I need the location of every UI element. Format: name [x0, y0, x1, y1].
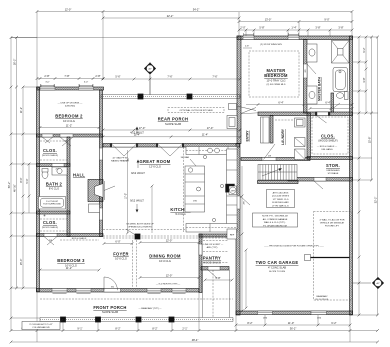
svg-text:16'-2": 16'-2"	[12, 59, 16, 66]
door opening: pantry south door	[208, 267, 220, 271]
dimension line: top second level	[103, 17, 239, 19]
svg-text:PANTRY: PANTRY	[203, 256, 221, 261]
beam dashed: great room south	[103, 235, 236, 237]
fixture: mbath vanity2	[307, 86, 317, 104]
dimension: stoop width	[205, 279, 232, 281]
dimension line: left tub dim	[28, 164, 30, 213]
front porch slab edge	[40, 317, 233, 319]
leader: beam arrow	[126, 229, 137, 236]
svg-text:FRONT PORCH: FRONT PORCH	[93, 305, 126, 310]
svg-text:CLOS.: CLOS.	[43, 220, 57, 225]
svg-text:7'-8": 7'-8"	[64, 74, 69, 78]
dimension line: garage doors	[236, 324, 350, 326]
window: master north W2	[288, 36, 299, 40]
svg-text:CLOS.: CLOS.	[43, 148, 57, 153]
jamb: great room sliders	[110, 144, 112, 148]
svg-text:— 8'-0 HDR HT (TYP) —: — 8'-0 HDR HT (TYP) —	[156, 284, 181, 286]
door opening: mbath door	[304, 64, 308, 78]
porch post NW	[138, 94, 143, 99]
svg-text:6'-4": 6'-4"	[278, 100, 283, 104]
fixture: mbath tub	[333, 68, 348, 92]
door opening: great room slider E	[157, 144, 183, 148]
door opening: laundry door	[262, 158, 276, 161]
svg-text:11'-4": 11'-4"	[202, 133, 208, 137]
closet1 shelf dashed	[40, 140, 67, 142]
svg-text:— LINE OF 5/8 DRWL —: — LINE OF 5/8 DRWL —	[58, 103, 83, 105]
wall: laundry south	[241, 158, 310, 161]
dimension line: bottom overall	[11, 341, 378, 343]
wall: pantry north	[199, 234, 231, 237]
svg-text:— BEAM ABV (TYP) —: — BEAM ABV (TYP) —	[139, 307, 163, 310]
door opening: bath2 door	[52, 164, 64, 167]
extension lines	[36, 12, 38, 87]
svg-text:4' WALL TO ALLOW FOR: 4' WALL TO ALLOW FOR	[320, 219, 345, 222]
wall: garage south	[236, 311, 353, 315]
svg-text:2'-8": 2'-8"	[44, 74, 49, 78]
bedroom3 closet shelf	[60, 239, 99, 241]
svg-text:10'-0 CLG: 10'-0 CLG	[63, 119, 75, 123]
svg-text:OPTIONAL OUTDOOR KITCHEN: OPTIONAL OUTDOOR KITCHEN	[180, 109, 213, 112]
soffit dashed above dining	[103, 229, 199, 231]
sill: master w2	[289, 34, 299, 36]
fixture: laundry sink	[295, 149, 306, 160]
dimension: dining width 2	[140, 277, 199, 279]
fixture: entry bench	[261, 117, 270, 143]
note: porch column	[22, 322, 60, 330]
dimension line: right bath dims	[365, 37, 367, 113]
svg-text:5'-0": 5'-0"	[25, 178, 29, 183]
svg-text:OPENING (8'-0 HDR HT): OPENING (8'-0 HDR HT)	[128, 227, 153, 229]
window: dining south W1	[147, 289, 161, 293]
kitchen faucet diamonds	[203, 155, 206, 158]
door opening: mbath to closet	[316, 112, 329, 116]
wall: pantry west / dining east	[199, 234, 202, 293]
svg-text:7'-6": 7'-6"	[212, 75, 217, 79]
porch post NE	[187, 94, 192, 99]
water heater	[229, 186, 237, 195]
door opening: bedroom2 door	[60, 134, 73, 137]
svg-text:9'-0": 9'-0"	[324, 17, 329, 21]
wall: tub south	[37, 211, 71, 214]
sill: bed3 south w1	[53, 293, 67, 295]
svg-text:9/12 VAULT: 9/12 VAULT	[131, 171, 145, 175]
svg-text:ATTIC ACCESS: ATTIC ACCESS	[273, 191, 289, 194]
svg-text:11'-4": 11'-4"	[134, 133, 140, 137]
svg-text:DBL HANG: DBL HANG	[321, 148, 332, 151]
svg-text:REF: REF	[230, 235, 235, 237]
door opening: hall to great room	[100, 148, 103, 160]
svg-text:REAR PORCH: REAR PORCH	[158, 117, 189, 122]
svg-text:8'-0 CLG: 8'-0 CLG	[49, 187, 59, 191]
wall: bedroom2 east / hall east	[100, 90, 103, 237]
sill: dining south w2	[173, 293, 186, 295]
dimension line: top right 13ft	[239, 21, 352, 23]
kitchen lower counter	[186, 224, 237, 233]
wall: bedroom2 north	[37, 87, 104, 90]
svg-text:(WOOD SHELF): (WOOD SHELF)	[42, 227, 58, 229]
dimension line: above rear porch	[103, 78, 240, 80]
svg-text:R-38 INSUL ABV: R-38 INSUL ABV	[272, 201, 289, 204]
svg-text:42" GAS FP W/: 42" GAS FP W/	[112, 157, 127, 160]
svg-text:BEDROOM 2: BEDROOM 2	[55, 114, 83, 119]
svg-text:WALLS & CLG (TYP) -: WALLS & CLG (TYP) -	[264, 221, 286, 224]
svg-text:9'-2": 9'-2"	[362, 47, 366, 52]
svg-text:11'-2": 11'-2"	[66, 266, 72, 270]
svg-text:BATH 2: BATH 2	[46, 182, 63, 187]
porch post S3	[136, 317, 141, 322]
window: bedroom3 south W1	[52, 289, 67, 293]
svg-text:11'-2": 11'-2"	[66, 123, 72, 127]
kitchen ref	[227, 229, 237, 239]
door opening: front door	[104, 289, 121, 293]
dimension: porch interior	[103, 129, 240, 131]
wall: south exterior	[37, 289, 200, 293]
svg-text:(CEILING): (CEILING)	[65, 105, 75, 107]
door opening: great room slider W	[111, 144, 137, 148]
leader: kitchen note	[190, 159, 196, 166]
door opening: stor door	[314, 178, 326, 182]
wall: bath2 east	[67, 137, 70, 237]
porch post S2	[95, 317, 100, 322]
svg-text:10'-0 CLG: 10'-0 CLG	[159, 259, 171, 263]
garage dashed storage	[314, 212, 353, 301]
wall: bedroom2 south	[37, 134, 103, 137]
svg-text:15'-8": 15'-8"	[367, 137, 371, 144]
closet-r shelf dashed	[312, 117, 348, 154]
laundry shelf dashed	[275, 119, 293, 121]
door leaf: master entry door	[241, 108, 256, 114]
note box: garage wall	[253, 213, 298, 227]
dimension: garage interior v	[245, 250, 247, 308]
svg-text:CLOS.: CLOS.	[321, 134, 335, 139]
door opening: closet1 door	[42, 134, 53, 137]
svg-text:(WOOD SHELF): (WOOD SHELF)	[42, 155, 58, 157]
svg-text:FUTURE LIFT: FUTURE LIFT	[325, 226, 340, 228]
svg-text:STORAGE: STORAGE	[328, 172, 339, 175]
svg-text:WOOD SHLVS: WOOD SHLVS	[203, 261, 221, 265]
svg-text:3'-8": 3'-8"	[362, 77, 366, 82]
fixture: mbath shower	[332, 41, 350, 64]
fixture: bath2 vanity	[52, 167, 67, 175]
sill: master w1	[244, 34, 254, 36]
garage door opening 2	[311, 311, 327, 315]
svg-text:36'-2": 36'-2"	[290, 326, 297, 330]
svg-text:1/2" DRWL CLG: 1/2" DRWL CLG	[273, 199, 289, 201]
post: foyer-dining column	[135, 234, 140, 239]
svg-text:17'-0": 17'-0"	[207, 126, 214, 130]
wall: great room north	[103, 144, 240, 148]
wall: master south	[258, 112, 353, 116]
svg-text:FT. OF ANY BEDROOM: FT. OF ANY BEDROOM	[263, 224, 287, 227]
svg-text:5/8 DRWL BOTH SIDES OF: 5/8 DRWL BOTH SIDES OF	[126, 224, 154, 226]
fixture: laundry dryer	[295, 138, 306, 147]
svg-text:8'-2": 8'-2"	[115, 326, 120, 330]
dimension line: left 16-2	[16, 38, 18, 88]
pantry shelves dashed	[203, 240, 228, 242]
sill: bed3 south w2	[77, 293, 91, 295]
svg-text:5'-0 TUB W/: 5'-0 TUB W/	[46, 201, 58, 203]
door opening: garage entry	[236, 196, 240, 209]
dimension line: top overall	[37, 11, 352, 13]
svg-text:8'-2": 8'-2"	[247, 321, 252, 325]
svg-text:10'-0 TRAY CLG: 10'-0 TRAY CLG	[266, 79, 285, 83]
svg-text:MASTER BATH: MASTER BATH	[318, 77, 322, 101]
svg-text:BEDROOM 3: BEDROOM 3	[57, 258, 85, 263]
svg-text:7'-6": 7'-6"	[167, 75, 172, 79]
wall: closet2 shelf wall	[37, 234, 104, 237]
kitchen counter edge dashed	[183, 147, 185, 232]
wall: pantry south	[201, 267, 229, 271]
svg-text:ROD & SHELF: ROD & SHELF	[72, 238, 87, 240]
attic stair hatch	[258, 165, 297, 181]
svg-text:— ROD & SHELF —: — ROD & SHELF —	[317, 146, 338, 148]
svg-text:8'-0": 8'-0"	[19, 177, 23, 182]
svg-text:(2) 2/8 5/3 WINDOWS: (2) 2/8 5/3 WINDOWS	[260, 44, 282, 46]
fixture: outdoor kitchen	[229, 104, 237, 110]
sill: dining south w1	[148, 293, 161, 295]
svg-text:12'-0": 12'-0"	[65, 7, 72, 11]
svg-text:5'-8": 5'-8"	[259, 26, 264, 30]
svg-text:17'-0": 17'-0"	[139, 126, 146, 130]
svg-text:LAUNDRY: LAUNDRY	[281, 128, 285, 145]
door opening: hall south	[100, 208, 103, 220]
dimension: garage west column	[241, 166, 243, 311]
dimension line: right inner	[358, 37, 360, 315]
svg-text:2'-8": 2'-8"	[245, 46, 250, 48]
svg-text:GREAT ROOM: GREAT ROOM	[140, 159, 171, 164]
svg-text:2'-0": 2'-0"	[240, 26, 245, 30]
svg-text:2'-1": 2'-1"	[182, 326, 187, 330]
svg-text:17'-0": 17'-0"	[124, 193, 127, 199]
svg-text:9/12 VAULT: 9/12 VAULT	[130, 199, 144, 203]
garage door opening 1	[258, 311, 273, 315]
svg-text:48'-4": 48'-4"	[192, 338, 199, 342]
door opening: closet2 door	[44, 215, 45, 216]
svg-text:SLOPE SLAB: SLOPE SLAB	[165, 122, 181, 126]
wall: mbath west	[304, 40, 308, 114]
svg-text:BEAM ABV: BEAM ABV	[316, 295, 328, 298]
wall: below attic stairs	[258, 181, 299, 184]
wall: closet-r west	[307, 113, 311, 158]
dimension: great room row	[103, 136, 240, 138]
dashed cased opening foyer	[132, 240, 134, 288]
svg-text:6'-2": 6'-2"	[331, 321, 336, 325]
wall: toilet compartment	[331, 93, 334, 112]
svg-text:3'-0": 3'-0"	[84, 81, 89, 83]
svg-text:STOR.: STOR.	[326, 163, 340, 168]
svg-text:(2) 14x36 VENTS: (2) 14x36 VENTS	[272, 196, 290, 198]
kitchen island	[185, 166, 205, 212]
construction line: upper datum	[11, 37, 239, 39]
dimension: master south row	[246, 104, 352, 106]
dimension: bedroom3 width	[40, 269, 99, 271]
svg-text:TILE SURROUND: TILE SURROUND	[43, 204, 61, 206]
front porch dashed roofline	[40, 298, 233, 300]
svg-text:ALL COMMON GARAGE: ALL COMMON GARAGE	[263, 218, 288, 221]
closet2 shelf dashed	[40, 218, 67, 220]
fixture: mbath vanity1	[307, 44, 317, 62]
svg-text:COLUMN ABOVE: COLUMN ABOVE	[32, 326, 50, 329]
svg-text:9'-1": 9'-1"	[77, 326, 82, 330]
svg-text:ENTRY: ENTRY	[246, 130, 250, 142]
svg-text:1'-4": 1'-4"	[291, 26, 296, 30]
sill: bedroom2 w2	[79, 85, 93, 87]
kitchen top counter	[186, 147, 237, 155]
window: bedroom2 north W2	[79, 87, 94, 90]
svg-text:(2) 3/4 CRWN MLD: (2) 3/4 CRWN MLD	[267, 84, 286, 86]
dimension line: bottom segments	[11, 330, 378, 332]
svg-text:3'-0": 3'-0"	[45, 81, 50, 83]
dimension: mbr window note	[243, 47, 252, 49]
svg-text:4" CONC SLAB: 4" CONC SLAB	[268, 266, 286, 270]
svg-text:40'-10": 40'-10"	[12, 184, 16, 192]
svg-text:3' CLR HEIGHT 12"x12": 3' CLR HEIGHT 12"x12"	[29, 324, 53, 326]
tray ceiling dashed	[249, 51, 299, 97]
svg-text:15'-0": 15'-0"	[19, 259, 23, 266]
garage beam	[305, 255, 311, 261]
dimension: bedroom2 width	[40, 127, 99, 129]
svg-text:6'-0": 6'-0"	[115, 239, 120, 243]
wall: east exterior	[350, 36, 353, 315]
dimension: mbath row	[310, 108, 352, 110]
kitchen east counter	[227, 149, 238, 229]
svg-text:DINING ROOM: DINING ROOM	[149, 254, 181, 259]
dimension line: left outer	[10, 38, 12, 331]
svg-text:(2) 11 7/8 LVL: (2) 11 7/8 LVL	[315, 299, 329, 301]
door opening: pantry door	[199, 244, 202, 255]
note box: garage attic	[267, 190, 295, 208]
window: dining south W2	[172, 289, 186, 293]
wall: laundry west	[270, 116, 273, 144]
svg-text:36" BAR: 36" BAR	[181, 156, 190, 159]
wall: master north	[237, 36, 353, 40]
svg-text:5'-8": 5'-8"	[215, 276, 220, 280]
dimension line: left 40-10	[16, 87, 18, 288]
kitchen range	[226, 184, 235, 192]
door leaf: toilet compartment	[334, 103, 341, 108]
svg-text:2'-8": 2'-8"	[95, 74, 100, 78]
fixture: mbath toilet	[336, 93, 343, 99]
svg-text:34'-2": 34'-2"	[193, 7, 200, 11]
dimension line: top right window dims	[239, 29, 352, 31]
sill: bedroom2 w1	[41, 85, 55, 87]
jamb: mb south door	[315, 112, 317, 116]
wall: closet1 south	[37, 164, 71, 167]
svg-text:(TYP) GAR CLG: (TYP) GAR CLG	[272, 204, 288, 207]
svg-text:11'-0": 11'-0"	[288, 321, 294, 325]
fixture: laundry washer	[295, 118, 306, 127]
porch post S4	[169, 317, 174, 322]
dimension: great room vertical 2	[151, 186, 153, 233]
svg-text:12'-0": 12'-0"	[166, 273, 173, 277]
svg-text:8'-2": 8'-2"	[152, 326, 157, 330]
svg-text:(WOOD SHELF): (WOOD SHELF)	[318, 139, 337, 143]
window: bedroom3 south W2	[76, 289, 91, 293]
svg-text:BEDROOM: BEDROOM	[264, 73, 288, 78]
svg-text:12'-0": 12'-0"	[166, 238, 173, 242]
svg-text:SLOPE TO DRS: SLOPE TO DRS	[269, 271, 286, 273]
svg-text:3'-8": 3'-8"	[338, 26, 343, 30]
svg-text:10'-0 CLG: 10'-0 CLG	[115, 257, 127, 261]
dimension: foyer width	[104, 243, 132, 245]
leader: fp note	[104, 186, 115, 191]
leader: stair arrow	[262, 169, 280, 176]
svg-text:FOYER: FOYER	[113, 252, 129, 257]
svg-text:VEHICLE DR SWING AT: VEHICLE DR SWING AT	[320, 222, 345, 225]
svg-text:TWO CAR GARAGE: TWO CAR GARAGE	[256, 260, 299, 265]
section marker A (top)	[144, 63, 156, 75]
svg-text:12'-0 CLG: 12'-0 CLG	[149, 165, 161, 169]
svg-text:5'-6": 5'-6"	[115, 75, 120, 79]
svg-text:WH: WH	[231, 190, 235, 192]
window: bedroom2 north W1	[40, 87, 55, 90]
svg-text:—— PROVIDE BLOCKING FOR FUTURE: —— PROVIDE BLOCKING FOR FUTURE OPNR (TYP…	[264, 245, 324, 247]
fixture: bath2 tub	[39, 197, 66, 210]
porch post S1	[60, 317, 65, 322]
svg-text:22'-2": 22'-2"	[167, 14, 174, 18]
fixture: bath2 toilet	[42, 171, 48, 179]
section marker B (right)	[372, 277, 384, 289]
rear porch slab edge	[101, 94, 240, 96]
svg-text:3'-8": 3'-8"	[315, 26, 320, 30]
dimension line: right overall	[377, 37, 379, 315]
svg-text:11'-2": 11'-2"	[19, 107, 23, 113]
svg-text:32'-2": 32'-2"	[373, 197, 377, 204]
svg-text:13'-0": 13'-0"	[265, 17, 272, 21]
svg-text:NOTE: FYI - 5/8 DRWL AT: NOTE: FYI - 5/8 DRWL AT	[262, 215, 288, 218]
fixture: great room fireplace	[88, 180, 103, 202]
svg-text:SLOPE SLAB: SLOPE SLAB	[102, 310, 118, 314]
svg-text:6'-4": 6'-4"	[325, 100, 330, 104]
wall: stor south	[288, 178, 353, 182]
dimension: great room vertical	[127, 150, 129, 233]
door leaf: laundry door	[264, 144, 276, 160]
wall: west exterior	[37, 87, 40, 292]
dimension: dining width	[140, 242, 199, 244]
svg-text:HALL: HALL	[73, 173, 85, 178]
svg-text:ABV (TYP): ABV (TYP)	[207, 246, 218, 249]
dimension line: above bedroom2 windows	[37, 78, 103, 80]
wall: closet-r south / stor north	[307, 157, 353, 160]
wall: entry west / kitchen-garage west	[237, 36, 241, 144]
svg-text:UNFINISHED: UNFINISHED	[326, 170, 340, 172]
svg-text:— LINE OF SOFFIT —: — LINE OF SOFFIT —	[201, 244, 224, 246]
svg-text:9'-0 CLG: 9'-0 CLG	[175, 212, 185, 216]
wall: garage west	[236, 144, 240, 316]
window: master north W1	[243, 36, 254, 40]
dimension line: left room dims	[22, 87, 24, 288]
svg-text:50'-2": 50'-2"	[7, 182, 11, 189]
stoop side lines	[202, 270, 204, 318]
door opening: bedroom3 door	[44, 234, 57, 237]
dimension line: right 15-8	[371, 37, 373, 180]
